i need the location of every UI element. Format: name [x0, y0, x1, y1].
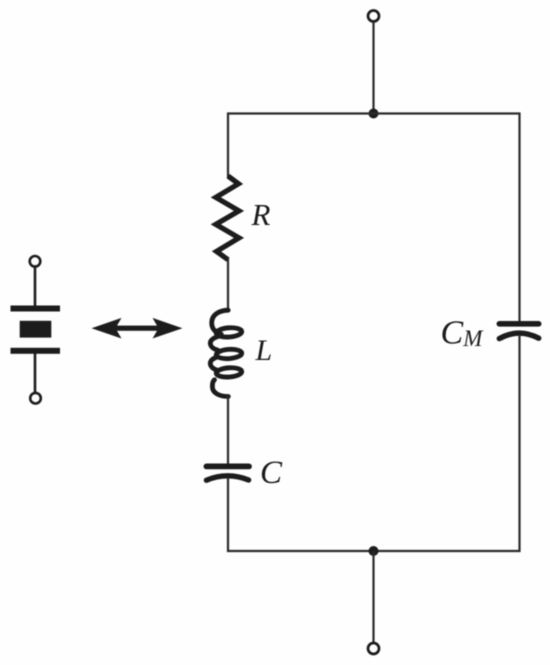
- wire inductor to capacitor: [227, 395, 229, 465]
- crystal top terminal: [30, 256, 41, 267]
- wire resistor to inductor: [227, 258, 229, 312]
- capacitor CM top plate: [499, 321, 538, 327]
- wire left branch upper: [227, 113, 229, 178]
- wire right branch upper: [518, 113, 520, 322]
- wire right branch lower: [518, 336, 520, 552]
- wire capacitor to bottom: [227, 478, 229, 553]
- resistor R: [216, 176, 239, 260]
- wire bottom junction to terminal: [372, 551, 374, 643]
- wire bottom horizontal: [227, 550, 521, 552]
- wire top horizontal: [227, 112, 521, 114]
- capacitor C top plate: [206, 463, 249, 469]
- svg-text:R: R: [251, 197, 271, 232]
- crystal bottom terminal: [30, 393, 41, 404]
- wire top terminal to junction: [372, 22, 374, 114]
- svg-text:CM: CM: [441, 314, 485, 351]
- svg-text:C: C: [260, 455, 283, 491]
- node bottom junction: [369, 546, 379, 556]
- equivalence arrow: [92, 318, 183, 339]
- node top junction: [369, 109, 379, 119]
- svg-text:L: L: [255, 334, 273, 367]
- crystal wire top: [34, 267, 37, 308]
- top terminal: [368, 11, 379, 22]
- inductor L: [210, 310, 242, 396]
- bottom terminal: [368, 643, 379, 654]
- crystal body: [20, 321, 52, 338]
- crystal bottom plate: [11, 348, 61, 354]
- crystal top plate: [11, 306, 61, 312]
- capacitor C bottom curved plate: [206, 476, 248, 480]
- capacitor CM bottom curved plate: [499, 333, 538, 339]
- crystal wire bottom: [34, 353, 37, 393]
